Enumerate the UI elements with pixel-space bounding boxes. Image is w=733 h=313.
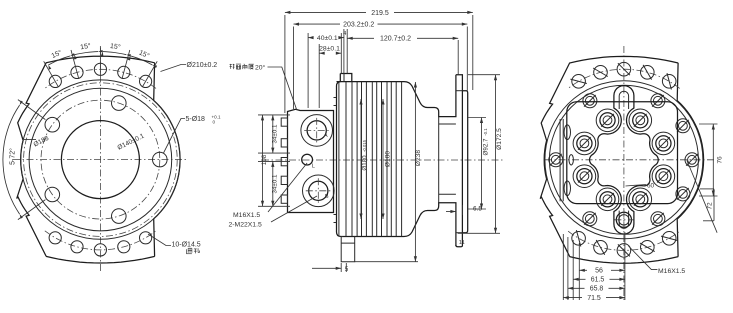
2-M22X1.5 label [229, 222, 262, 229]
right view vertical centerline [623, 46, 625, 300]
M16 brake port [614, 210, 633, 229]
svg-text:5-Ø18: 5-Ø18 [186, 116, 206, 123]
dim 40 [308, 35, 344, 42]
svg-text:76: 76 [717, 156, 724, 164]
left view bottom bolt-circle dash arc [45, 231, 156, 250]
phi172.5 extensions [458, 75, 500, 234]
M16X1.5 label [233, 212, 260, 219]
svg-text:11: 11 [459, 240, 465, 246]
dim 65.8 [568, 286, 625, 293]
phi210 leader [161, 65, 187, 72]
svg-text:20°: 20° [255, 63, 266, 71]
bottom dim extension lines [563, 232, 625, 300]
right view 10 mounting holes with slash [570, 62, 677, 257]
phi210 label [187, 62, 218, 69]
svg-text:6.5: 6.5 [473, 206, 482, 213]
dim 76 extensions [699, 124, 718, 196]
left chord lines [560, 119, 563, 201]
svg-text:108: 108 [261, 154, 268, 165]
left view horizontal centerline [13, 159, 187, 161]
dim phi92.7 [480, 118, 490, 210]
dim 5 extension [341, 263, 346, 272]
10-phi14.5 leader [148, 234, 171, 246]
dim phi180 toleranced [359, 99, 368, 219]
port A label [324, 133, 328, 139]
left view outer profile with mounting tabs [17, 56, 180, 263]
side port slots [564, 125, 573, 196]
M16X1.5 right leader [629, 246, 658, 270]
svg-text:B: B [325, 194, 329, 200]
left view flange circle [21, 80, 180, 239]
port A boss circle [301, 115, 333, 147]
port L label [312, 164, 316, 170]
svg-text:15°: 15° [80, 42, 92, 51]
5-72 degree dimension arc [3, 100, 46, 220]
cooling fin lines [352, 82, 402, 237]
dim phi172.5 [494, 75, 503, 234]
10 mounting holes phi14.5 [49, 63, 152, 256]
M16X1.5 right label [658, 268, 685, 275]
top dimension extension lines [285, 15, 473, 113]
hub flower outline [590, 86, 659, 234]
M16X1.5 leader [268, 163, 307, 212]
phi140 label [116, 133, 145, 152]
phi188 leader [24, 139, 36, 141]
bevel angle 20 leader [268, 67, 297, 110]
dim 56 [579, 268, 625, 275]
dim 34 lower [271, 161, 278, 206]
svg-text:219.5: 219.5 [371, 10, 389, 17]
brake housing square frame [567, 102, 678, 204]
dim 203.2 [294, 22, 468, 29]
left view center bore phi88 [61, 121, 139, 199]
front cover step lines [334, 98, 337, 223]
bottom drain boss [341, 237, 355, 262]
svg-text:28±0.1: 28±0.1 [319, 46, 340, 53]
phi92.7 extensions [468, 118, 486, 210]
pilot line [456, 91, 463, 233]
dim 5 [312, 266, 349, 273]
hub outline [439, 117, 456, 203]
dim phi238 [414, 82, 422, 262]
svg-text:5: 5 [345, 266, 349, 273]
phi238 extension [355, 261, 418, 263]
svg-text:Ø172.5: Ø172.5 [496, 128, 503, 150]
svg-text:-0.1: -0.1 [483, 128, 488, 136]
motor body outline [337, 74, 456, 247]
port B boss circle [303, 175, 335, 207]
15 degree labels [50, 42, 151, 60]
dim 60 label [647, 183, 655, 190]
svg-text:71.5: 71.5 [587, 295, 601, 302]
8 wheel stud holes [577, 113, 671, 207]
stud boss circles [573, 109, 675, 211]
right view outer profile with mounting tabs [540, 56, 703, 263]
port B phi22 [306, 178, 331, 203]
right view horizontal centerline [545, 159, 715, 161]
wheel flange plate [456, 75, 468, 247]
svg-text:15°: 15° [109, 42, 121, 51]
right view top bolt-circle dash arc [568, 69, 680, 88]
5 holes phi18 on phi140 [45, 96, 167, 224]
svg-text:120.7±0.2: 120.7±0.2 [380, 36, 411, 43]
dim 71.5 [563, 295, 625, 302]
bevel angle 20 label [230, 63, 266, 71]
5-72 degree label [9, 148, 17, 165]
svg-text:M16X1.5: M16X1.5 [233, 212, 260, 219]
svg-text:40±0.1: 40±0.1 [317, 35, 338, 42]
dim 6.5 [446, 205, 482, 215]
15 degree spacing extension lines and arcs [44, 46, 158, 87]
svg-text:34±0.1: 34±0.1 [272, 174, 279, 193]
svg-text:Ø180: Ø180 [362, 155, 369, 171]
port B label [325, 194, 329, 200]
ring hole leader [687, 161, 717, 233]
svg-text:-0.015: -0.015 [362, 139, 367, 152]
top U slot [619, 91, 628, 109]
left view vertical centerline [99, 48, 101, 272]
dim 120.7 [347, 36, 458, 43]
right view flange circle [545, 81, 703, 239]
svg-text:Ø92.7: Ø92.7 [483, 138, 490, 155]
bottom U slot [619, 211, 628, 229]
dimension 11 [459, 240, 465, 246]
svg-text:65.8: 65.8 [590, 286, 604, 293]
left view top bolt-circle dash arc [45, 69, 156, 88]
5-phi18 label [186, 115, 222, 125]
right view body circle [549, 85, 698, 234]
left dim extension lines [258, 115, 290, 206]
svg-text:203.2±0.2: 203.2±0.2 [343, 22, 374, 29]
svg-text:10-Ø14.5: 10-Ø14.5 [172, 242, 201, 249]
svg-text:0: 0 [213, 120, 216, 125]
dim 61.5 [573, 277, 625, 284]
left view pilot dash circle phi188 [24, 83, 178, 237]
left view body circle [29, 88, 172, 231]
phi188 label [33, 135, 51, 149]
svg-text:2-M22X1.5: 2-M22X1.5 [229, 222, 262, 229]
dim 60 leader [626, 185, 647, 187]
right view bottom bolt-circle dash arc [568, 231, 680, 250]
2-M22X1.5 leader [271, 196, 317, 222]
dim 108 [261, 115, 268, 206]
dim 28 [319, 46, 341, 55]
mounting flange plate lines [339, 74, 346, 237]
svg-text:72: 72 [707, 202, 714, 210]
svg-text:Ø180: Ø180 [385, 151, 392, 167]
dim 219.5 [285, 10, 473, 17]
svg-text:5-72°: 5-72° [9, 148, 17, 165]
middle view axis centerline [262, 159, 505, 161]
svg-text:56: 56 [595, 268, 603, 275]
5-phi18 leader [164, 119, 186, 154]
svg-text:61.5: 61.5 [591, 277, 605, 284]
svg-text:M16X1.5: M16X1.5 [658, 268, 685, 275]
svg-text:Ø238: Ø238 [415, 150, 422, 166]
left view bolt circle phi140 dash [41, 100, 160, 219]
10-phi14.5 label [172, 242, 201, 254]
dim 72 [700, 189, 714, 221]
svg-text:Ø210±0.2: Ø210±0.2 [187, 62, 218, 69]
dim 4 [343, 31, 347, 37]
dim 34 upper [271, 115, 278, 153]
port A phi22 [304, 118, 329, 143]
dim 76 [712, 124, 724, 196]
svg-text:A: A [324, 133, 328, 139]
svg-text:34±0.1: 34±0.1 [272, 124, 279, 143]
svg-text:60: 60 [647, 183, 655, 190]
dim phi180 [381, 99, 391, 219]
ring of socket head screws [549, 94, 699, 226]
port L gauge [302, 154, 313, 165]
port block outline [288, 109, 334, 212]
distributor spline teeth [281, 118, 287, 203]
